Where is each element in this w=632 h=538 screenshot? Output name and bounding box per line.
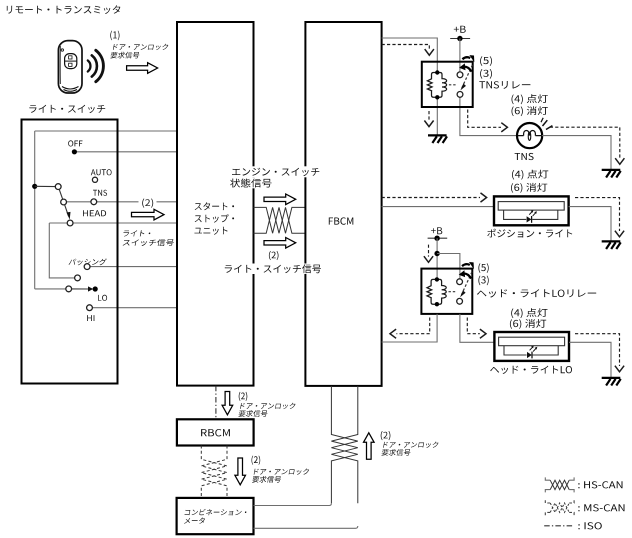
arrow unlock signal to start-stop unit <box>127 63 158 74</box>
TNS relay mechanical link dashed <box>449 84 456 86</box>
legend HS-CAN symbol <box>545 477 550 480</box>
label RBCM <box>201 429 230 436</box>
label (2) unlock to RBCM <box>239 392 248 401</box>
headlight LO housing box <box>494 332 569 361</box>
label ポジション・ライト <box>487 229 572 238</box>
contact pivot B <box>61 199 67 205</box>
contact HI <box>87 305 93 311</box>
TNS relay actuate arrow (5) <box>462 57 470 59</box>
wire OFF to unit <box>74 151 177 153</box>
transmit waves <box>88 50 104 81</box>
label (2) ライト・スイッチ信号 <box>269 251 279 260</box>
legend MS-CAN symbol <box>545 500 550 503</box>
dashed signal LO relay to FBCM <box>396 318 429 334</box>
FBCM box <box>305 22 381 386</box>
contact TNS <box>91 199 97 205</box>
wire headlight to ground <box>569 342 611 377</box>
wire passing to unit <box>90 266 177 268</box>
label HI <box>87 315 94 321</box>
ground position light <box>602 240 621 242</box>
position light housing box <box>494 196 569 225</box>
wire meter to FBCM lower <box>254 526 358 528</box>
HS-CAN twisted pair FBCM-meter <box>331 386 357 503</box>
wire common loop to unit <box>35 130 177 132</box>
ground TNS relay coil <box>428 134 447 136</box>
label HEAD <box>83 210 106 216</box>
dashed current position light to ground <box>575 198 620 231</box>
headlight LO relay mechanical link dashed <box>449 291 456 293</box>
label TNS <box>93 190 107 196</box>
contact HEAD <box>67 220 73 226</box>
label (6) 消灯 headlight <box>510 319 546 329</box>
arm segment A-B <box>59 189 63 199</box>
TNS relay actuate arrow (3) <box>464 67 472 72</box>
wire +B to TNS relay switch <box>459 39 461 75</box>
wire LO relay switch to headlight <box>460 314 495 342</box>
RBCM box <box>177 419 254 445</box>
label (4) 点灯 headlight <box>511 308 547 318</box>
node +B branch <box>434 251 439 256</box>
arm segment B-HEAD with arrowhead <box>65 205 69 217</box>
legend ISO symbol <box>544 525 574 527</box>
legend label ISO <box>578 522 602 529</box>
headlight LO bulb bar <box>499 337 565 346</box>
label TNS lamp <box>515 153 534 160</box>
dashed current lamp to ground <box>550 127 620 158</box>
position light LED <box>527 216 532 222</box>
dashed current arrow into LO relay <box>428 245 430 257</box>
ground headlight LO <box>602 377 621 379</box>
contact pivot A <box>55 184 61 190</box>
wire FBCM to TNS relay coil <box>382 38 438 72</box>
TNS relay box <box>422 62 473 107</box>
label コンビネーション・メータ <box>184 509 247 516</box>
label ヘッド・ライトLOリレー <box>477 289 596 297</box>
label スタート・ストップ・ユニット <box>195 202 234 210</box>
MS-CAN twisted pair RBCM-meter <box>201 446 227 498</box>
start-stop unit box <box>177 22 254 386</box>
arrow light switch signal to FBCM <box>264 238 296 249</box>
wire LO relay coil to FBCM <box>382 314 438 342</box>
headlight LO relay switch arm dashed <box>461 272 472 295</box>
contact AUTO <box>92 177 97 182</box>
HS-CAN twisted pair unit-FBCM <box>254 207 306 233</box>
headlight LO LED <box>527 352 532 358</box>
label (6) 消灯 position light <box>511 183 547 193</box>
TNS relay switch contacts <box>457 72 463 78</box>
label (1) door unlock request signal <box>110 31 119 41</box>
passing branch wire <box>49 223 74 278</box>
label ライト・スイッチ <box>29 105 105 113</box>
dashed current arrow relay to lamp <box>468 110 501 128</box>
wire FBCM to position light <box>382 206 494 208</box>
contact LO pivot <box>66 286 72 292</box>
dashed current headlight to ground <box>575 334 620 366</box>
switch arm common to AUTO pivot <box>35 185 56 187</box>
label (3) TNS <box>480 69 492 79</box>
label FBCM <box>329 217 354 224</box>
wire HI to unit <box>92 307 177 309</box>
lamp TNS <box>517 123 542 148</box>
wire TNS to unit <box>66 201 138 203</box>
label (4) 点灯 position light <box>512 170 548 180</box>
position light bulb bar <box>498 202 564 211</box>
TNS relay switch arm dashed <box>462 65 473 88</box>
label (4) 点灯 TNS <box>512 94 548 104</box>
inner common bus wire <box>34 131 36 289</box>
headlight LO relay actuate arrow (5) <box>462 264 470 266</box>
arrow unlock signal to FBCM <box>364 433 375 459</box>
dashed signal FBCM to position light <box>382 197 480 199</box>
wire TNS lamp to ground <box>542 136 611 170</box>
label OFF <box>68 140 82 146</box>
contact passing lower <box>75 275 81 281</box>
position light LED loop <box>504 210 558 219</box>
wire meter to FBCM upper <box>254 503 332 505</box>
power +B headlight relay <box>431 227 442 234</box>
label (6) 消灯 TNS <box>512 106 548 116</box>
headlight LO relay box <box>421 269 472 314</box>
label エンジン・スイッチ状態信号 <box>229 166 323 177</box>
dashed current arrow to ground <box>428 111 430 121</box>
arrow unlock signal to meter <box>235 458 246 485</box>
label (3) LO relay <box>478 276 488 286</box>
LO arm arrow <box>72 288 89 290</box>
wire TNS relay coil to ground <box>436 97 438 135</box>
label (5) TNS <box>480 56 492 66</box>
TNS relay coil <box>427 73 437 98</box>
dashed current arrow relay to headlight <box>467 318 480 334</box>
label (2) unlock to FBCM <box>381 431 391 440</box>
node LO <box>93 286 98 291</box>
wire +B branch to LO relay switch <box>437 254 460 282</box>
headlight LO LED loop <box>504 346 558 355</box>
ISO line unit to RBCM <box>215 386 217 420</box>
headlight LO relay switch contacts <box>457 279 463 285</box>
arrow engine switch status signal <box>264 194 296 205</box>
contact passing <box>84 264 90 270</box>
label (2) unlock to meter <box>252 456 261 465</box>
ground TNS lamp <box>602 169 621 171</box>
legend label MS-CAN <box>578 504 624 511</box>
combination meter box <box>177 498 254 534</box>
title リモート・トランスミッタ <box>7 5 121 14</box>
wire +B to LO relay coil <box>436 238 438 279</box>
remote transmitter key fob <box>58 41 82 93</box>
label AUTO <box>91 169 112 175</box>
headlight LO relay actuate arrow (3) <box>464 273 472 278</box>
power +B TNS <box>454 26 466 33</box>
contact OFF <box>72 149 77 154</box>
arrow unlock signal to RBCM <box>222 392 233 415</box>
wire position light to ground <box>569 207 611 242</box>
dashed signal FBCM to TNS relay <box>382 45 430 51</box>
label TNSリレー <box>479 81 530 89</box>
LO arm wire <box>35 288 66 290</box>
label ヘッド・ライトLO <box>490 366 572 374</box>
label (5) LO relay <box>478 263 488 273</box>
light switch box <box>22 120 118 384</box>
arrow light switch signal <box>132 209 165 220</box>
wire HEAD to unit <box>49 222 177 224</box>
node common junction <box>32 184 37 189</box>
label ライト・スイッチ信号 two-line <box>123 230 151 236</box>
headlight LO relay coil <box>427 279 437 304</box>
label LO <box>98 295 107 301</box>
wire TNS relay switch to TNS lamp <box>460 94 517 135</box>
label パッシング <box>68 259 106 266</box>
lamp TNS rays <box>543 120 548 126</box>
label (2) on TNS wire <box>142 199 153 208</box>
legend label HS-CAN <box>578 481 622 488</box>
